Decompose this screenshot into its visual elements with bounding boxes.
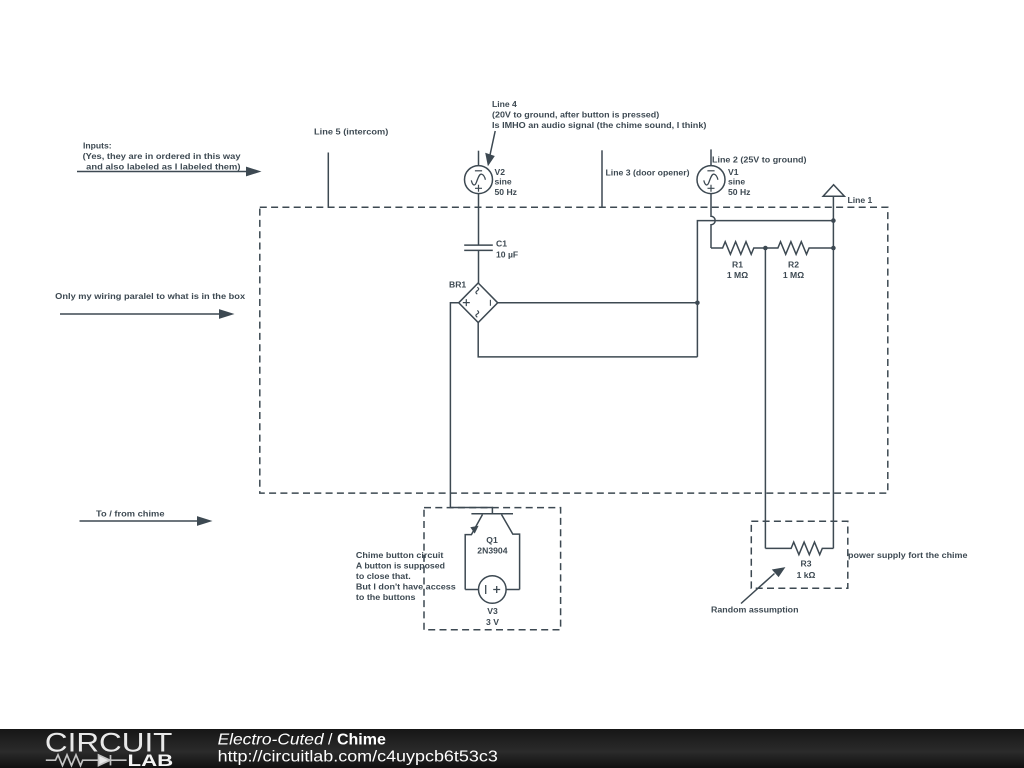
wire V2 top [478,151,480,166]
svg-text:(20V to ground, after button i: (20V to ground, after button is pressed) [492,110,659,120]
svg-text:R2: R2 [788,259,799,269]
svg-text:to the buttons: to the buttons [356,592,416,602]
svg-text:1 MΩ: 1 MΩ [727,270,748,280]
wire V1 bottom with hop over bus [711,194,715,248]
resistor R2 [765,242,833,255]
label C1 [496,239,518,260]
transistor Q1 [465,514,519,590]
resistor R3 [765,542,833,555]
svg-text:10 µF: 10 µF [496,249,518,259]
wire node column and top bus [697,221,833,357]
label Q1 [477,535,507,556]
source V2 [465,166,493,194]
svg-text:Inputs:: Inputs: [83,141,112,151]
node junction R2 right [831,246,836,251]
svg-text:Line 3 (door opener): Line 3 (door opener) [606,168,690,178]
label R1 [727,259,748,280]
big dashed box [260,207,888,493]
svg-text:3 V: 3 V [486,617,499,627]
arrow random assumption [741,567,785,603]
chime button dashed box [424,508,561,630]
svg-text:Is IMHO an audio signal (the c: Is IMHO an audio signal (the chime sound… [492,120,707,130]
arrow line4 [485,131,495,166]
rectifier BR1 [459,283,498,323]
svg-text:power supply fort the chime: power supply fort the chime [848,550,968,560]
svg-text:Line 2 (25V to ground): Line 2 (25V to ground) [712,155,807,165]
logo CIRCUIT [45,727,172,757]
svg-text:to close that.: to close that. [356,571,411,581]
svg-text:Random assumption: Random assumption [711,604,799,614]
svg-text:and also labeled as I labeled: and also labeled as I labeled them) [86,162,240,172]
svg-text:50 Hz: 50 Hz [495,187,517,197]
wire mid column to R3 [764,248,766,548]
label R2 [783,259,804,280]
svg-text:R3: R3 [801,559,812,569]
svg-text:sine: sine [495,177,512,187]
label R3 [797,559,816,580]
resistor R1 [711,242,765,255]
node Line 3 label [606,168,690,178]
svg-text:50 Hz: 50 Hz [728,187,750,197]
svg-text:C1: C1 [496,239,507,249]
svg-text:V3: V3 [487,606,498,616]
source V1 [697,166,725,194]
label V2 [495,167,517,197]
svg-text:Electro-Cuted / Chime: Electro-Cuted / Chime [218,731,386,748]
node junction BR1 output [695,301,700,306]
annotation text power supply [848,550,968,560]
annotation text Line 4 [492,99,707,130]
svg-text:sine: sine [728,177,745,187]
svg-text:LAB: LAB [128,751,174,768]
svg-text:Line 1: Line 1 [848,195,873,205]
wire V2 to C1 [478,194,480,246]
svg-text:1 kΩ: 1 kΩ [797,570,816,580]
svg-text:2N3904: 2N3904 [477,546,507,556]
logo resistor diode squiggle [46,755,127,766]
svg-text:http://circuitlab.com/c4uypcb6: http://circuitlab.com/c4uypcb6t53c3 [218,749,498,766]
label Line 1 [848,195,873,205]
wire C1 to BR1 [478,250,480,283]
svg-text:BR1: BR1 [449,280,466,290]
wire BR1 left output down to Q1 base [450,303,492,514]
svg-text:1 MΩ: 1 MΩ [783,270,804,280]
arrow inputs [77,167,262,177]
antenna Line 1 [823,185,844,221]
logo LAB [128,751,174,768]
footer url [218,749,498,766]
wire right column to R3 [832,221,834,549]
svg-text:Chime button circuit: Chime button circuit [356,550,444,560]
wire BR1 bottom output [478,323,697,357]
arrow to-from-chime [80,516,213,526]
node junction antenna bus [831,218,836,223]
annotation text random assumption [711,604,799,614]
footer title [218,731,386,748]
wire Line 3 stub [601,150,603,207]
annotation text To / from chime [96,509,165,519]
label V1 [728,167,750,197]
annotation text Only my wiring [55,291,245,301]
svg-text:To / from chime: To / from chime [96,509,165,519]
source V3 [465,576,519,604]
node Line 2 label [712,155,807,165]
svg-text:Q1: Q1 [486,535,498,545]
svg-text:R1: R1 [732,259,743,269]
label BR1 [449,280,466,290]
svg-text:V1: V1 [728,167,739,177]
node junction R1-R2 [763,246,768,251]
arrow only-my-wiring [60,309,235,319]
annotation text Inputs [83,141,241,172]
wire Line 5 stub [327,153,329,208]
annotation text chime button circuit [356,550,456,602]
svg-text:Line 5 (intercom): Line 5 (intercom) [314,127,388,137]
label V3 [486,606,499,627]
svg-text:Only my wiring paralel to what: Only my wiring paralel to what is in the… [55,291,245,301]
node Line 5 label [314,127,388,137]
capacitor C1 [464,245,493,250]
svg-text:But I don't have access: But I don't have access [356,582,456,592]
wire BR1 plus output to node [498,302,698,304]
svg-text:V2: V2 [495,167,506,177]
svg-text:Line 4: Line 4 [492,99,517,109]
svg-text:A button is supposed: A button is supposed [356,561,445,571]
power supply dashed box [751,521,848,588]
svg-text:(Yes, they are in ordered in t: (Yes, they are in ordered in this way [83,151,241,161]
footer bar [0,729,1024,768]
wire V1 top [710,149,712,165]
